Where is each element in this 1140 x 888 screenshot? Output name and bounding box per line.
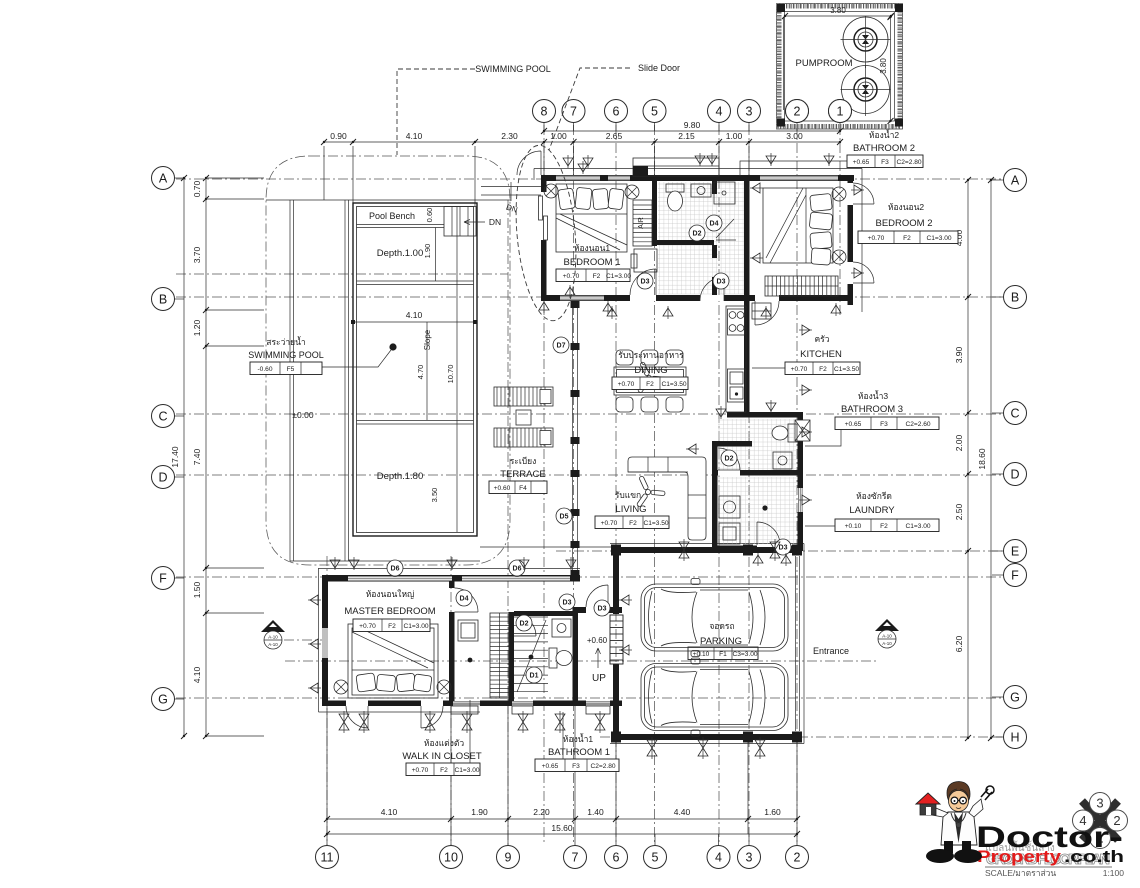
- terrace mid square: [516, 410, 531, 425]
- svg-text:6: 6: [613, 105, 620, 119]
- svg-text:1.20: 1.20: [192, 319, 202, 336]
- pool datum dot: [322, 343, 397, 367]
- svg-text:KITCHEN: KITCHEN: [800, 349, 842, 360]
- svg-text:F: F: [1011, 569, 1019, 583]
- tiles bath1: [0, 0, 1, 1]
- door tag D2: [721, 450, 737, 466]
- pumproom walls: [777, 4, 904, 130]
- pool DN steps: [444, 207, 476, 237]
- key plan compass: [1073, 793, 1128, 849]
- wall kitchen west: [744, 301, 750, 412]
- porch labels: [587, 636, 608, 684]
- parking slab edge: [610, 544, 804, 744]
- svg-text:A: A: [159, 172, 168, 186]
- svg-text:3.80: 3.80: [830, 6, 846, 15]
- svg-text:AIR: AIR: [638, 217, 645, 229]
- door tag D2: [516, 615, 532, 631]
- parking west steps: [610, 615, 623, 664]
- svg-text:A-10: A-10: [268, 635, 278, 640]
- svg-text:BEDROOM 2: BEDROOM 2: [875, 218, 932, 229]
- svg-text:+0.70: +0.70: [412, 767, 429, 774]
- pump 2: [841, 65, 891, 116]
- label dining: [612, 350, 688, 390]
- svg-text:1.90: 1.90: [471, 807, 488, 817]
- svg-text:3: 3: [1096, 796, 1103, 811]
- top dimension chain: [321, 120, 843, 206]
- bottom dimension chain: [324, 706, 800, 837]
- toilet bath3: [772, 424, 797, 442]
- svg-text:D4: D4: [460, 596, 469, 603]
- wall hall west L: [712, 441, 752, 551]
- shower bath2: [714, 182, 736, 240]
- stairs bath1: [514, 617, 548, 692]
- callout slide door: [509, 63, 680, 323]
- svg-text:DN: DN: [489, 217, 501, 227]
- svg-text:รับประทานอาหาร: รับประทานอาหาร: [618, 350, 684, 360]
- title block texts: [985, 840, 1124, 878]
- svg-text:BATHROOM 3: BATHROOM 3: [841, 404, 903, 415]
- svg-text:3: 3: [746, 105, 753, 119]
- bath1 dot: [529, 655, 534, 660]
- label parking: [688, 621, 758, 660]
- svg-text:ห้องนอน2: ห้องนอน2: [888, 202, 925, 212]
- bowtie markers: [339, 539, 780, 759]
- svg-text:LIVING: LIVING: [615, 504, 646, 515]
- svg-text:C: C: [158, 410, 167, 424]
- wall lower wing north glass: [322, 575, 580, 582]
- bath2 tile floor: [658, 182, 744, 294]
- svg-text:1.90: 1.90: [423, 244, 432, 259]
- nightstands master: [334, 680, 451, 694]
- svg-text:0.90: 0.90: [330, 131, 347, 141]
- sink laundry: [719, 523, 740, 544]
- svg-text:2.65: 2.65: [606, 131, 623, 141]
- DN arrow label: [464, 217, 501, 227]
- shaft with X: [795, 420, 810, 441]
- door bedroom1 D3: [630, 269, 656, 295]
- door tag D3: [637, 273, 653, 289]
- svg-text:+0.60: +0.60: [494, 485, 511, 492]
- svg-text:SWIMMING POOL: SWIMMING POOL: [248, 350, 324, 360]
- svg-text:G: G: [158, 693, 168, 707]
- left dimension chain: [170, 175, 264, 739]
- wall bedroom2 east with doors: [848, 175, 875, 305]
- dining chairs: [616, 350, 683, 412]
- wall porch: [578, 585, 622, 613]
- svg-text:ห้องนอนใหญ่: ห้องนอนใหญ่: [366, 589, 415, 599]
- svg-text:4.70: 4.70: [416, 365, 425, 380]
- pool bench: [357, 211, 445, 228]
- svg-text:G: G: [1010, 691, 1020, 705]
- svg-text:2.00: 2.00: [954, 434, 964, 451]
- svg-text:C1=3.00: C1=3.00: [926, 235, 951, 242]
- pumproom top dim: [782, 6, 894, 19]
- wall lower wing west: [322, 575, 328, 706]
- kitchen counter: [726, 306, 746, 412]
- wall bath1 north: [514, 611, 578, 616]
- svg-text:D1: D1: [530, 673, 539, 680]
- svg-text:1.00: 1.00: [550, 131, 567, 141]
- pumproom right dim: [879, 14, 894, 124]
- section marker line west: [284, 639, 322, 641]
- washer laundry: [719, 496, 740, 518]
- grid bubbles bottom: [316, 834, 809, 869]
- door tag D6: [387, 560, 403, 576]
- svg-text:D2: D2: [725, 456, 734, 463]
- svg-text:TERRACE: TERRACE: [500, 469, 545, 480]
- sink bath2: [691, 184, 711, 197]
- svg-text:Slide Door: Slide Door: [638, 63, 680, 73]
- label master bedroom: [344, 589, 435, 632]
- grid lines: [176, 125, 1002, 845]
- svg-text:C1=3.50: C1=3.50: [834, 366, 859, 373]
- svg-text:H: H: [1010, 731, 1019, 745]
- svg-text:D: D: [158, 471, 167, 485]
- dining fan: [637, 362, 666, 394]
- svg-text:3.50: 3.50: [430, 488, 439, 503]
- door tag D7: [553, 337, 569, 353]
- svg-text:1.40: 1.40: [587, 807, 604, 817]
- svg-text:7.40: 7.40: [192, 448, 202, 465]
- svg-text:+0.70: +0.70: [601, 520, 618, 527]
- svg-text:ห้องน้ำ1: ห้องน้ำ1: [563, 733, 593, 744]
- svg-text:2.30: 2.30: [501, 131, 518, 141]
- svg-text:F4: F4: [519, 485, 527, 492]
- svg-text:จอดรถ: จอดรถ: [709, 621, 734, 631]
- svg-text:7: 7: [572, 851, 579, 865]
- svg-text:+0.60: +0.60: [587, 636, 608, 645]
- svg-text:SCALE/มาตราส่วน: SCALE/มาตราส่วน: [985, 868, 1056, 878]
- svg-text:UP: UP: [592, 673, 606, 684]
- wall bath1 east: [573, 607, 579, 701]
- svg-text:F1: F1: [719, 651, 727, 658]
- svg-text:7: 7: [570, 105, 577, 119]
- svg-text:ห้องน้ำ3: ห้องน้ำ3: [858, 390, 888, 401]
- dresser closet: [458, 620, 478, 641]
- svg-text:LAUNDRY: LAUNDRY: [849, 505, 895, 516]
- wall top wing north: [541, 175, 854, 181]
- svg-text:8: 8: [541, 105, 548, 119]
- wall bath2 south divider: [657, 240, 714, 245]
- section marker west: [261, 620, 285, 649]
- svg-text:C2=2.60: C2=2.60: [905, 421, 930, 428]
- svg-text:A-10: A-10: [882, 634, 892, 639]
- svg-text:C1=3.50: C1=3.50: [661, 381, 686, 388]
- svg-text:+0.70: +0.70: [359, 623, 376, 630]
- svg-text:2: 2: [794, 851, 801, 865]
- label walk-in closet: [402, 700, 482, 776]
- svg-text:+0.70: +0.70: [791, 366, 808, 373]
- grid bubbles left: [152, 167, 185, 711]
- svg-text:5: 5: [651, 105, 658, 119]
- svg-text:4.10: 4.10: [406, 131, 423, 141]
- svg-text:+0.70: +0.70: [563, 273, 580, 280]
- wall bath3-laundry divider: [714, 448, 803, 476]
- logo text co.th: [1064, 847, 1124, 866]
- glass wall terrace east: [571, 301, 580, 577]
- svg-text:B: B: [1011, 291, 1019, 305]
- svg-text:F3: F3: [572, 763, 580, 770]
- closet AIR: [633, 200, 652, 246]
- wall parking north: [611, 545, 802, 556]
- svg-text:ครัว: ครัว: [814, 334, 829, 344]
- svg-text:3.90: 3.90: [954, 346, 964, 363]
- wall parking west: [613, 553, 619, 734]
- svg-text:D3: D3: [641, 279, 650, 286]
- parking east open edge: [796, 556, 800, 731]
- svg-text:2: 2: [794, 105, 801, 119]
- svg-text:1: 1: [837, 105, 844, 119]
- svg-text:+0.65: +0.65: [845, 421, 862, 428]
- svg-text:5: 5: [652, 851, 659, 865]
- nightstands bedroom1: [544, 184, 639, 199]
- wall bedroom2 west: [744, 175, 750, 305]
- svg-text:4.10: 4.10: [381, 807, 398, 817]
- svg-text:ห้องซักรีด: ห้องซักรีด: [856, 491, 892, 501]
- svg-text:C2=2.80: C2=2.80: [590, 763, 615, 770]
- svg-text:10.70: 10.70: [446, 365, 455, 384]
- wall bath3 north: [727, 412, 803, 418]
- door tag D3: [594, 600, 610, 616]
- terrace steps upper: [494, 387, 553, 406]
- svg-text:D6: D6: [513, 566, 522, 573]
- pool deck dashed boundary: [266, 156, 510, 565]
- terrace label: [489, 456, 547, 494]
- svg-text:D6: D6: [391, 566, 400, 573]
- svg-text:Depth.1.80: Depth.1.80: [377, 471, 423, 482]
- datum 0.00 label: [292, 410, 313, 420]
- door tag D3: [713, 273, 729, 289]
- door tag D2: [689, 225, 705, 241]
- svg-text:11: 11: [321, 851, 334, 865]
- svg-text:4.40: 4.40: [674, 807, 691, 817]
- svg-text:17.40: 17.40: [170, 446, 180, 468]
- svg-text:D2: D2: [520, 621, 529, 628]
- svg-text:C1=3.00: C1=3.00: [905, 523, 930, 530]
- svg-text:4.10: 4.10: [406, 310, 423, 320]
- grid bubble 1 overlay: [829, 100, 852, 123]
- svg-text:ห้องนอน1: ห้องนอน1: [574, 243, 611, 253]
- nightstands bedroom2: [832, 187, 846, 264]
- car 2: [641, 658, 788, 736]
- svg-text:A: A: [1011, 174, 1020, 188]
- svg-text:D5: D5: [560, 514, 569, 521]
- svg-text:A-10: A-10: [882, 641, 892, 646]
- label entrance: [813, 646, 849, 656]
- svg-text:D2: D2: [693, 231, 702, 238]
- svg-text:+0.70: +0.70: [868, 235, 885, 242]
- svg-text:4: 4: [715, 851, 722, 865]
- door bedroom1 northwest: [517, 151, 541, 175]
- door tag D5: [556, 508, 572, 524]
- svg-text:1.60: 1.60: [764, 807, 781, 817]
- door bedroom2 D3: [755, 301, 779, 325]
- svg-text:15.60: 15.60: [551, 823, 573, 833]
- svg-text:9.80: 9.80: [684, 120, 701, 130]
- dining table: [614, 367, 686, 395]
- svg-text:C1=3.00: C1=3.00: [606, 273, 631, 280]
- svg-text:D7: D7: [557, 343, 566, 350]
- svg-text:18.60: 18.60: [977, 448, 987, 470]
- bed bedroom2: [763, 188, 833, 265]
- svg-text:3: 3: [746, 851, 753, 865]
- logo text Property: [977, 847, 1062, 866]
- svg-text:D4: D4: [710, 221, 719, 228]
- svg-text:Entrance: Entrance: [813, 646, 849, 656]
- svg-text:0.70: 0.70: [192, 180, 202, 197]
- svg-text:10: 10: [444, 851, 458, 865]
- svg-text:6: 6: [613, 851, 620, 865]
- wall line B across: [541, 295, 853, 301]
- svg-text:BEDROOM 1: BEDROOM 1: [563, 257, 620, 268]
- svg-text:+0.10: +0.10: [845, 523, 862, 530]
- car 1: [641, 579, 788, 657]
- pump 1: [841, 16, 891, 68]
- wardrobe bedroom2: [765, 276, 838, 296]
- wall master-closet divider: [449, 581, 478, 701]
- svg-text:0.60: 0.60: [425, 208, 434, 223]
- logo text Doctor-: [976, 821, 1123, 854]
- svg-text:รับแขก: รับแขก: [615, 490, 641, 500]
- door tag D4: [456, 590, 472, 606]
- doors master south: [346, 706, 443, 728]
- label bedroom2: [858, 202, 958, 244]
- svg-text:Pool Bench: Pool Bench: [369, 211, 415, 221]
- svg-text:BATHROOM 2: BATHROOM 2: [853, 143, 915, 154]
- laundry dot: [762, 505, 767, 510]
- svg-text:9: 9: [505, 851, 512, 865]
- closet dot: [468, 658, 473, 663]
- label bathroom1: [535, 712, 619, 772]
- svg-text:C1=3.00: C1=3.00: [454, 767, 479, 774]
- toilet bath2: [666, 184, 684, 211]
- svg-text:D: D: [1010, 468, 1019, 482]
- DN label 2: [505, 203, 519, 215]
- svg-text:3.70: 3.70: [192, 246, 202, 263]
- svg-text:F3: F3: [880, 421, 888, 428]
- svg-text:+0.65: +0.65: [542, 763, 559, 770]
- svg-text:Depth.1.00: Depth.1.00: [377, 248, 423, 259]
- kitchen stove: [728, 309, 745, 335]
- svg-text:F3: F3: [881, 159, 889, 166]
- bed bedroom1: [556, 184, 627, 252]
- door tag D1: [526, 667, 542, 683]
- section marker east: [875, 619, 899, 648]
- window markers: [308, 153, 864, 693]
- svg-text:สระว่ายน้ำ: สระว่ายน้ำ: [266, 336, 305, 347]
- grid bubbles right: [992, 169, 1027, 749]
- label living: [595, 490, 669, 529]
- svg-text:C: C: [1010, 407, 1019, 421]
- svg-text:SWIMMING POOL: SWIMMING POOL: [475, 64, 551, 74]
- callout swimming pool: [397, 64, 551, 155]
- svg-text:F2: F2: [388, 623, 396, 630]
- svg-text:ห้องน้ำ2: ห้องน้ำ2: [869, 129, 899, 140]
- svg-text:F2: F2: [819, 366, 827, 373]
- svg-text:A-10: A-10: [268, 642, 278, 647]
- svg-text:D3: D3: [779, 545, 788, 552]
- window sills south: [451, 706, 610, 714]
- svg-text:ห้องแต่งตัว: ห้องแต่งตัว: [424, 738, 465, 748]
- svg-text:PUMPROOM: PUMPROOM: [796, 58, 853, 69]
- pool depth lines and labels: [351, 207, 477, 533]
- svg-text:C1=3.50: C1=3.50: [643, 520, 668, 527]
- label laundry: [805, 491, 939, 532]
- svg-text:MASTER BEDROOM: MASTER BEDROOM: [344, 606, 435, 617]
- kitchen fridge: [752, 303, 771, 319]
- svg-text:F2: F2: [903, 235, 911, 242]
- door tag D3: [559, 594, 575, 610]
- sink bath1: [552, 619, 571, 637]
- terrace steps lower: [494, 428, 553, 447]
- svg-text:+0.10: +0.10: [693, 651, 710, 658]
- svg-text:F5: F5: [287, 366, 295, 373]
- svg-text:BATHROOM 1: BATHROOM 1: [548, 747, 610, 758]
- door tag D4: [706, 215, 722, 231]
- roof overhang lines lower wing: [318, 569, 580, 713]
- roof overhang lines top wing: [534, 169, 862, 313]
- svg-text:Slope: Slope: [423, 329, 432, 350]
- svg-text:1.00: 1.00: [726, 131, 743, 141]
- svg-text:C1=3.00: C1=3.00: [403, 623, 428, 630]
- label bathroom2: [740, 129, 923, 176]
- closet bay above wall: [633, 158, 719, 176]
- door tag D6: [509, 560, 525, 576]
- svg-text:F2: F2: [629, 520, 637, 527]
- svg-text:F2: F2: [880, 523, 888, 530]
- porch steps: [610, 615, 623, 664]
- wall lower wing south: [322, 701, 622, 707]
- kitchen sink: [728, 369, 746, 402]
- svg-text:F: F: [159, 572, 167, 586]
- toilet bath1: [549, 648, 572, 668]
- svg-text:DINING: DINING: [634, 365, 667, 376]
- svg-text:±0.00: ±0.00: [292, 410, 313, 420]
- wall bath2 east divider: [712, 181, 717, 301]
- svg-text:4.10: 4.10: [192, 666, 202, 683]
- svg-text:3.00: 3.00: [786, 131, 803, 141]
- svg-text:F2: F2: [646, 381, 654, 388]
- label kitchen: [752, 334, 860, 375]
- svg-text:+0.70: +0.70: [618, 381, 635, 388]
- pool deck slab lines: [266, 182, 541, 561]
- svg-text:4: 4: [716, 105, 723, 119]
- wall bath3-laundry east: [798, 417, 804, 551]
- tiles laundry: [718, 477, 797, 544]
- sink bath3: [773, 452, 792, 469]
- swimming pool label: [248, 336, 324, 375]
- living fan: [636, 476, 665, 508]
- wall laundry south: [712, 522, 803, 551]
- swimming pool basin: [353, 203, 477, 536]
- svg-text:-0.60: -0.60: [257, 366, 272, 373]
- svg-text:D3: D3: [563, 600, 572, 607]
- wall closet-bath divider: [509, 612, 537, 701]
- wall parking south: [611, 732, 802, 743]
- svg-text:E: E: [1011, 545, 1019, 559]
- svg-text:D3: D3: [717, 279, 726, 286]
- terrace south edge: [480, 546, 613, 548]
- grid bubbles top: [533, 100, 852, 132]
- svg-text:2.15: 2.15: [678, 131, 695, 141]
- svg-text:+0.65: +0.65: [853, 159, 870, 166]
- svg-text:C2=2.80: C2=2.80: [896, 159, 921, 166]
- svg-text:D3: D3: [598, 606, 607, 613]
- bed master: [348, 624, 438, 698]
- label bathroom3: [805, 390, 939, 446]
- door tag D3: [775, 539, 791, 555]
- svg-text:2.20: 2.20: [533, 807, 550, 817]
